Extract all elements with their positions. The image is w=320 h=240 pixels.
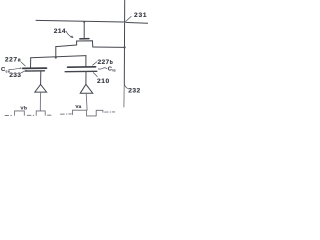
node junction dot drain/signal line xyxy=(124,46,126,48)
leader for 210 xyxy=(93,73,97,77)
arrowhead of 214 leader xyxy=(70,35,73,38)
leader squiggle for Clc xyxy=(98,68,107,69)
transistor 214 channel top xyxy=(77,40,93,42)
wire left branch to Vb xyxy=(39,92,41,111)
wire signal line 232 (vertical bus) xyxy=(123,0,125,84)
capacitor 227a bottom plate xyxy=(26,70,45,72)
wire drain arm of 214 to signal line xyxy=(93,46,125,48)
waveform source Vb xyxy=(5,111,51,116)
svg-text:Va: Va xyxy=(75,104,81,110)
svg-text:227a: 227a xyxy=(5,57,21,64)
svg-text:233: 233 xyxy=(9,72,21,79)
leader arrow for 214 xyxy=(66,31,71,37)
wire scan line 231 (top rail, left of crossing) xyxy=(36,20,124,22)
node junction dot source/node line xyxy=(55,56,57,58)
waveform source Va xyxy=(61,110,115,116)
svg-text:227b: 227b xyxy=(98,59,114,66)
wire gate lead of Q214 xyxy=(83,22,85,38)
wire signal line 232 lower faint segment xyxy=(123,85,125,108)
wire scan line 231 (right of crossing) xyxy=(126,21,148,24)
transistor 214 right step xyxy=(91,41,93,47)
leader for Ccs xyxy=(9,68,20,69)
svg-text:232: 232 xyxy=(128,88,141,95)
leader for 233 xyxy=(21,70,26,73)
arrowhead of Ccs leader xyxy=(20,67,23,69)
wire right branch to Va xyxy=(85,93,88,110)
wire storage node line xyxy=(31,56,86,58)
svg-text:214: 214 xyxy=(54,28,66,35)
wire node corner down to C227b xyxy=(85,56,87,67)
ground terminal triangle middle xyxy=(80,84,93,93)
transistor 214 left step xyxy=(76,41,78,45)
capacitor 227b bottom plate xyxy=(65,70,97,72)
svg-text:210: 210 xyxy=(97,78,110,85)
wire C227a bottom lead xyxy=(40,71,42,84)
svg-text:Clc: Clc xyxy=(108,67,116,73)
wire C227b bottom lead xyxy=(85,72,87,85)
node junction dot gate/scan line xyxy=(83,21,85,23)
leader for 231 xyxy=(126,16,132,21)
wire source drop to node xyxy=(55,47,57,58)
svg-text:Vb: Vb xyxy=(20,105,27,111)
ground terminal triangle left xyxy=(35,84,47,92)
svg-text:231: 231 xyxy=(134,12,147,19)
leader for 227a xyxy=(21,62,25,66)
transistor 214 gate bar xyxy=(80,38,89,40)
capacitor 227b top plate xyxy=(68,66,96,68)
wire node corner down to C227a xyxy=(30,58,32,68)
leader hook for 232 xyxy=(124,84,128,89)
capacitor 227a top plate xyxy=(23,67,47,69)
wire source arm of 214 xyxy=(56,45,77,47)
leader for 227b xyxy=(93,62,97,66)
